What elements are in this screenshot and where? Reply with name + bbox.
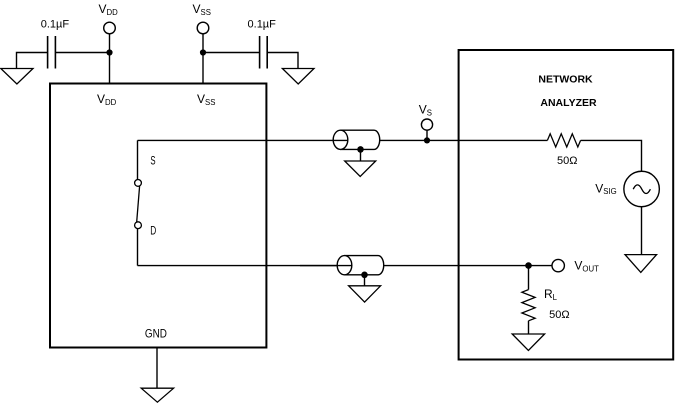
wire: switch D terminal vertical xyxy=(137,229,139,266)
wire: resistor to VSIG xyxy=(581,140,642,171)
ground at C1 xyxy=(1,69,33,85)
DUT box U1 xyxy=(50,84,266,348)
capacitor C2 0.1uF plates xyxy=(260,36,268,69)
ground at coax top xyxy=(345,161,376,176)
wire: S to coax top xyxy=(138,139,349,141)
coax BNC top end ellipse xyxy=(333,130,348,149)
svg-text:D: D xyxy=(150,226,156,238)
resistor RL xyxy=(522,290,535,321)
coax BNC bottom end ellipse xyxy=(337,256,352,275)
wire: VS stub xyxy=(426,130,428,140)
ground at DUT xyxy=(141,388,173,402)
wire: GND pin to ground xyxy=(156,348,158,389)
node VOUT junction xyxy=(525,262,532,269)
node VSS junction xyxy=(200,49,206,55)
wire: coax top to resistor xyxy=(380,139,548,141)
ground at coax bottom xyxy=(349,286,381,302)
ground at RL xyxy=(512,334,544,350)
svg-text:ANALYZER: ANALYZER xyxy=(540,97,597,109)
wire: D to coax bottom xyxy=(138,265,353,267)
wire: VSS terminal into box xyxy=(202,34,204,84)
coax BNC bottom body xyxy=(345,256,384,275)
svg-text:GND: GND xyxy=(145,329,167,341)
terminal VDD circle xyxy=(104,22,116,34)
wire: VSIG to ground xyxy=(641,207,643,255)
resistor 50ohm source xyxy=(547,134,580,147)
terminal VOUT circle xyxy=(552,259,564,271)
node VS junction xyxy=(424,137,430,143)
terminal VS circle xyxy=(421,119,432,130)
ground at VSIG xyxy=(625,255,657,273)
switch contact circle D xyxy=(135,222,142,229)
wire: coax bottom shield stub xyxy=(364,275,366,286)
node coax bottom shield xyxy=(361,272,368,279)
wire: VDD terminal into box xyxy=(109,34,111,84)
coax BNC top body xyxy=(341,130,380,149)
wire: RL to ground xyxy=(528,321,530,334)
wire: coax bottom to VOUT xyxy=(384,265,552,267)
source VSIG sine xyxy=(633,185,650,194)
node coax top shield xyxy=(357,146,364,153)
wire: C2 to right ground xyxy=(267,53,298,69)
ground at C2 xyxy=(282,69,314,85)
wire: left ground to capacitor C1 xyxy=(17,53,48,69)
svg-text:S: S xyxy=(150,156,155,168)
terminal VSS circle xyxy=(197,22,209,34)
node VDD junction xyxy=(106,49,112,55)
capacitor C1 0.1uF plates xyxy=(48,36,56,69)
switch arm xyxy=(137,186,140,222)
svg-text:0.1µF: 0.1µF xyxy=(41,19,70,31)
wire: C1 to VDD node xyxy=(55,52,109,54)
source VSIG circle xyxy=(624,171,660,207)
svg-text:50Ω: 50Ω xyxy=(549,309,569,321)
svg-text:50Ω: 50Ω xyxy=(557,155,577,167)
wire: coax top shield stub xyxy=(360,149,362,161)
svg-text:NETWORK: NETWORK xyxy=(538,73,593,85)
wire: into coax bottom xyxy=(300,265,352,267)
wire: switch S terminal vertical xyxy=(137,140,139,179)
switch contact circle S xyxy=(135,180,142,187)
wire: VOUT node to RL xyxy=(528,266,530,290)
wire: VSS node to capacitor C2 xyxy=(203,52,259,54)
NETWORK ANALYZER box xyxy=(459,50,674,360)
svg-text:0.1µF: 0.1µF xyxy=(248,19,277,31)
